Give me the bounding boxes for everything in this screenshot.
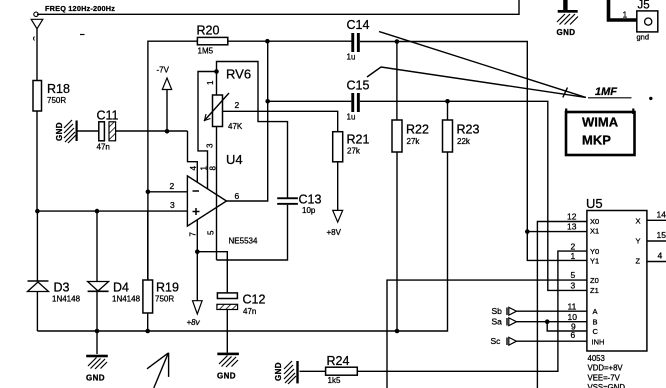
node pin7 junction — [195, 249, 200, 254]
wire C14 right — [360, 42, 528, 232]
svg-text:X1: X1 — [590, 227, 599, 236]
op-amp U4 — [187, 152, 258, 246]
capacitor C11 — [97, 109, 119, 152]
svg-text:RV6: RV6 — [226, 67, 251, 82]
svg-text:1: 1 — [199, 166, 208, 171]
wire C15 left — [268, 100, 352, 102]
svg-text:Y1: Y1 — [590, 257, 599, 266]
svg-text:4053: 4053 — [588, 354, 605, 363]
svg-text:R18: R18 — [47, 82, 70, 96]
svg-text:5: 5 — [571, 270, 576, 280]
svg-text:R24: R24 — [327, 354, 350, 368]
wire RV6 wiper to R21 — [223, 111, 338, 131]
svg-text:1: 1 — [571, 251, 576, 261]
svg-text:VDD=+8V: VDD=+8V — [588, 364, 624, 373]
svg-text:A: A — [593, 307, 598, 316]
svg-text:GND: GND — [557, 28, 576, 37]
wire X0 net — [537, 222, 587, 388]
wire R18 to node A — [36, 111, 38, 211]
svg-text:27k: 27k — [347, 147, 361, 156]
svg-text:VSS=GND: VSS=GND — [588, 383, 626, 388]
wire C13 bottom to pin5 net — [217, 205, 288, 260]
svg-text:FREQ 120Hz-200Hz: FREQ 120Hz-200Hz — [45, 4, 115, 13]
wire U5 X out — [647, 219, 666, 221]
annotation WIMA MKP box — [566, 109, 635, 156]
node C14/R22 — [395, 39, 400, 44]
svg-text:R22: R22 — [406, 123, 429, 137]
wire RV6 pin1 to op-amp pin 1 staircase — [198, 72, 217, 190]
wire gnd to C11 — [78, 130, 100, 132]
svg-text:27k: 27k — [407, 137, 421, 146]
connector input arrow — [31, 12, 43, 40]
svg-text:47n: 47n — [97, 143, 110, 152]
svg-text:Z: Z — [636, 257, 641, 266]
resistor R18 — [33, 81, 42, 112]
node RV6 pin1 junction — [214, 69, 219, 74]
svg-text:Sa: Sa — [492, 317, 503, 327]
capacitor C14 — [347, 18, 370, 62]
wire RV6 pin1 stub — [216, 72, 218, 96]
svg-text:X0: X0 — [590, 217, 599, 226]
arrow annotation — [147, 353, 169, 388]
svg-text:6: 6 — [571, 330, 576, 340]
wire U5 Y out — [647, 240, 666, 242]
svg-text:MKP: MKP — [582, 133, 611, 148]
wire Sa to C — [547, 322, 587, 331]
wire RV6 pin1 loop to C13 top — [217, 62, 288, 198]
svg-text:D4: D4 — [113, 281, 129, 295]
svg-text:47n: 47n — [243, 307, 256, 316]
svg-text:R20: R20 — [197, 24, 220, 38]
svg-text:4: 4 — [189, 166, 198, 171]
svg-text:10: 10 — [568, 312, 578, 322]
svg-text:22k: 22k — [457, 137, 471, 146]
svg-text:R23: R23 — [457, 123, 480, 137]
diode D4 — [88, 211, 141, 354]
buffer Sb — [492, 306, 517, 316]
wire Sc to INH — [517, 340, 587, 342]
buffer Sa — [492, 317, 517, 327]
wire top FREQ net — [37, 0, 519, 14]
resistor R20 — [197, 37, 227, 44]
wire C15 right to Z1 — [360, 101, 587, 290]
svg-text:Z0: Z0 — [590, 276, 599, 285]
svg-text:WIMA: WIMA — [582, 115, 619, 130]
svg-text:J5: J5 — [638, 0, 650, 12]
wire Sb to A — [517, 310, 587, 312]
svg-text:1u: 1u — [347, 53, 356, 62]
svg-text:Z1: Z1 — [590, 286, 599, 295]
wire Y0 net to R24 — [357, 251, 587, 371]
svg-text:C: C — [593, 327, 599, 336]
wire connector to R18 — [36, 29, 38, 81]
svg-text:1N4148: 1N4148 — [112, 295, 141, 304]
node rail dots — [95, 329, 100, 334]
svg-text:+8V: +8V — [327, 228, 342, 237]
svg-text:Sc: Sc — [491, 336, 502, 346]
node pin2 junction — [146, 190, 151, 195]
wire RV6 pin3 through op-amp (pins 8,5) — [216, 127, 218, 261]
annotation leader lines to 1MF — [379, 32, 586, 98]
wire bottom rail — [37, 152, 447, 331]
svg-text:1u: 1u — [347, 113, 356, 122]
connector J5 — [609, 0, 658, 42]
ground (C11 side, rotated) — [55, 120, 78, 143]
svg-text:1: 1 — [623, 10, 628, 20]
svg-text:10p: 10p — [302, 206, 316, 215]
svg-text:4: 4 — [658, 251, 663, 261]
svg-text:GND: GND — [274, 362, 283, 381]
wire pin 2 — [148, 191, 188, 193]
node D4 top dot — [95, 209, 100, 214]
U5 notes — [588, 354, 626, 388]
svg-text:VEE=-7V: VEE=-7V — [588, 373, 621, 382]
svg-text:C12: C12 — [243, 293, 266, 307]
potentiometer RV6 — [204, 67, 251, 132]
svg-text:Y0: Y0 — [590, 247, 599, 256]
svg-text:2: 2 — [235, 100, 240, 110]
wire output pin 6 up to R20 node — [227, 41, 268, 201]
svg-text:7: 7 — [189, 232, 198, 237]
node C15/R23 — [445, 99, 450, 104]
svg-text:15: 15 — [657, 230, 666, 240]
svg-text:Y: Y — [636, 237, 641, 246]
svg-text:U5: U5 — [586, 196, 603, 211]
node R20 output junction — [265, 39, 270, 44]
node Sa junction — [545, 319, 550, 324]
capacitor C12 — [217, 293, 266, 317]
svg-text:GND: GND — [217, 372, 236, 381]
capacitor C15 — [347, 79, 370, 122]
wire X1 stub — [527, 231, 587, 233]
node A dot — [35, 209, 40, 214]
svg-text:3: 3 — [571, 281, 576, 291]
svg-text:R21: R21 — [347, 133, 370, 147]
svg-text:6: 6 — [235, 191, 240, 201]
svg-text:GND: GND — [55, 122, 64, 141]
svg-text:-7V: -7V — [157, 66, 170, 75]
svg-text:C13: C13 — [299, 193, 322, 207]
svg-text:1: 1 — [206, 80, 215, 85]
svg-text:B: B — [593, 318, 598, 327]
ground (R24, rotated) — [274, 361, 299, 384]
wire Z0 net — [387, 280, 587, 388]
node -7V junction — [165, 129, 170, 134]
svg-text:750R: 750R — [155, 295, 174, 304]
resistor R19 — [143, 211, 179, 331]
svg-text:GND: GND — [86, 374, 105, 383]
svg-text:D3: D3 — [54, 281, 70, 295]
svg-text:3: 3 — [170, 200, 175, 210]
resistor R24 — [300, 354, 358, 385]
ground (D4) — [86, 355, 108, 383]
svg-text:gnd: gnd — [637, 33, 650, 42]
wire U5 Z out — [647, 261, 666, 263]
svg-text:12: 12 — [567, 212, 577, 222]
wire R20 left / feedback vertical — [148, 41, 198, 280]
wire C14 net to Y1 — [527, 232, 587, 261]
svg-text:8: 8 — [209, 166, 218, 171]
wire R22 drop — [396, 42, 398, 121]
svg-text:NE5534: NE5534 — [229, 237, 258, 246]
resistor R23 — [443, 101, 480, 152]
node C15 junction — [265, 99, 270, 104]
svg-text:47K: 47K — [228, 122, 243, 131]
svg-text:X: X — [636, 217, 641, 226]
power -7V — [157, 66, 172, 132]
svg-text:1N4148: 1N4148 — [52, 295, 81, 304]
power +8V (op-amp) — [187, 301, 203, 327]
wire pin 3 — [37, 210, 187, 212]
node X1 junction — [525, 229, 530, 234]
svg-text:14: 14 — [657, 210, 666, 220]
svg-text:R19: R19 — [156, 281, 179, 295]
wire -7V node to op-amp pin 4 — [188, 131, 198, 183]
svg-text:C11: C11 — [97, 109, 119, 123]
buffer Sc — [491, 336, 517, 346]
svg-text:2: 2 — [170, 181, 175, 191]
ground (top, near J5) — [557, 0, 579, 37]
wire R20 right to C14 — [228, 40, 352, 42]
svg-text:750R: 750R — [47, 96, 66, 105]
svg-text:3: 3 — [206, 143, 215, 148]
svg-text:1M5: 1M5 — [198, 47, 214, 56]
svg-text:C14: C14 — [347, 18, 370, 32]
svg-text:+8v: +8v — [187, 318, 201, 327]
svg-text:11: 11 — [568, 301, 577, 311]
resistor R22 — [392, 120, 429, 331]
svg-text:C15: C15 — [347, 79, 370, 93]
U5 pin numbers — [567, 210, 666, 340]
capacitor C13 — [277, 193, 321, 215]
wire C12 to ground — [226, 310, 228, 353]
svg-text:1MF: 1MF — [595, 86, 617, 98]
resistor R21 — [327, 132, 370, 237]
wire C11 to -7V node — [116, 130, 188, 132]
diode D3 — [28, 211, 81, 331]
wire Sa to B — [517, 321, 587, 323]
ground (C12) — [217, 353, 239, 381]
svg-text:13: 13 — [567, 222, 577, 232]
svg-text:5: 5 — [207, 230, 216, 235]
stray dash mark — [80, 34, 85, 36]
svg-text:Sb: Sb — [492, 306, 503, 316]
pin 7 wire — [196, 220, 198, 301]
svg-text:1k5: 1k5 — [328, 376, 341, 385]
IC U5 — [586, 196, 647, 351]
svg-text:INH: INH — [592, 338, 605, 347]
svg-text:U4: U4 — [226, 152, 243, 167]
wire pin7 node to C12 — [197, 252, 227, 293]
U5 pin labels left — [590, 217, 641, 347]
